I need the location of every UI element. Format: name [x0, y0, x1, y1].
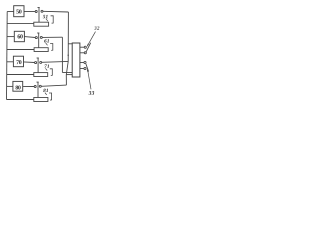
wire bus to box 70: [7, 61, 13, 63]
arrowhead 33: [87, 69, 89, 72]
vertical wire V2: [61, 37, 63, 72]
selector body: [72, 43, 80, 77]
arrowhead 32: [87, 44, 89, 47]
wire switch to V1 bottom: [41, 85, 66, 86]
leader 71: [45, 68, 47, 70]
junction dot on V1: [68, 55, 69, 56]
bracket 51: [51, 16, 54, 23]
label 51: [43, 15, 48, 18]
contact circle 32b: [84, 52, 86, 54]
box 80: [13, 81, 23, 91]
vertical wire V1: [66, 12, 68, 85]
switch 80 contact circle b: [39, 85, 41, 87]
switch 60 actuator bar: [38, 33, 40, 48]
label 60: [18, 34, 23, 38]
blade 33: [86, 64, 89, 72]
switch 50 contact circle a: [35, 11, 37, 13]
wire switch to vertical V2: [42, 36, 62, 38]
leader 61: [46, 43, 48, 45]
switch 70 actuator bar: [37, 58, 39, 73]
wire bus to box 50: [7, 11, 14, 13]
stub V2 to selector: [62, 72, 72, 74]
selector stub 32a: [80, 46, 84, 48]
wire switch to node V1: [43, 10, 68, 13]
box 70: [13, 56, 23, 66]
switch 70 contact circle a: [35, 62, 37, 64]
stub V1 to selector top: [68, 43, 72, 45]
contact circle 33a: [84, 61, 86, 63]
stub V1 to selector bottom: [66, 74, 72, 76]
switch 50 contact circle b: [41, 10, 43, 12]
switch 70 actuator cap: [37, 57, 39, 59]
label 33: [89, 91, 95, 95]
wire box 80 to switch: [23, 85, 35, 87]
leader 81: [45, 93, 47, 95]
contact circle 33b: [84, 67, 86, 69]
left supply bus: [6, 12, 9, 100]
switch 80 actuator cap: [37, 81, 39, 83]
label 32: [94, 26, 99, 29]
selector stub 33a: [80, 62, 84, 64]
wire bus to box 60: [7, 36, 14, 38]
selector stub 32b: [80, 52, 84, 54]
label 81: [43, 89, 48, 92]
wire bus to coil 81: [7, 99, 34, 101]
wire box 50 to switch: [24, 11, 35, 13]
switch 80 contact circle a: [34, 86, 36, 88]
switch 80 actuator bar: [37, 82, 39, 97]
wire bus to coil 61: [7, 49, 34, 51]
switch 60 contact circle a: [35, 37, 37, 39]
wire bus to coil 71: [7, 74, 34, 76]
switch 60 actuator cap: [37, 32, 39, 34]
switch 50 actuator cap: [38, 7, 40, 9]
label 71: [45, 64, 49, 67]
wire bus to coil 51: [7, 23, 34, 25]
box 50: [14, 6, 24, 17]
wire switch to V1: [42, 60, 68, 63]
label 50: [16, 9, 21, 13]
coil 81: [34, 98, 48, 102]
coil 51: [34, 22, 49, 26]
wire box 70 to switch: [24, 61, 35, 64]
blade 32: [86, 43, 91, 52]
wire bus to box 80: [7, 85, 13, 87]
leader 51: [46, 19, 48, 22]
coil 71: [34, 73, 48, 77]
contact circle 32a: [84, 46, 86, 48]
switch 50 actuator bar: [38, 8, 40, 23]
coil 61: [34, 48, 48, 52]
switch 70 contact circle b: [40, 61, 42, 63]
leader 33: [88, 72, 91, 89]
label 61: [44, 39, 49, 42]
label 70: [16, 60, 21, 64]
switch 60 contact circle b: [40, 36, 42, 38]
bracket 71: [50, 69, 53, 76]
leader 32: [87, 32, 95, 47]
bracket 81: [49, 93, 52, 100]
box 60: [14, 31, 24, 41]
label 80: [16, 85, 21, 89]
wire box 60 to switch: [24, 36, 35, 39]
selector stub 33b: [80, 68, 84, 70]
bracket 61: [50, 44, 53, 51]
